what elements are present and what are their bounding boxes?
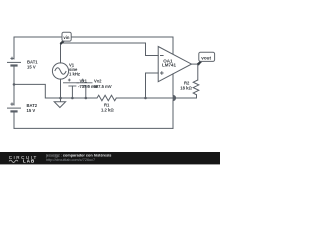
svg-text:15 V: 15 V — [27, 108, 36, 113]
wire: V1 top lead — [60, 43, 62, 63]
wire: +input stub — [146, 73, 159, 98]
resistor R1 — [97, 95, 116, 101]
svg-text:BAT2: BAT2 — [27, 103, 38, 108]
node: battery midpoint junction — [13, 83, 16, 86]
wire: probe Vx2 stem — [85, 86, 87, 98]
svg-text:697.5 mV: 697.5 mV — [94, 84, 112, 89]
probe Vx2 — [77, 79, 93, 86]
wire: BAT2 bottom to bottom rail — [13, 112, 15, 128]
svg-text:1 kHz: 1 kHz — [69, 72, 80, 77]
node: probe Vx1 junction — [71, 97, 74, 100]
node: probe Vx2 junction — [85, 97, 88, 100]
svg-text:vin: vin — [63, 35, 69, 40]
wire hop: V- wire hops over feedback wire — [173, 95, 176, 100]
wire: -15V bottom rail — [14, 127, 173, 129]
wire: R2 top lead — [197, 64, 199, 80]
wire: ground node to R1 — [61, 97, 98, 99]
probe Vx1 — [63, 79, 79, 86]
svg-text:LAB: LAB — [23, 159, 35, 164]
wire: R1 right to +input junction across to R2 bottom — [116, 97, 196, 99]
wire: BAT1 bottom to BAT2 top — [13, 66, 15, 105]
svg-text:R1: R1 — [104, 102, 110, 107]
battery BAT2 — [7, 103, 21, 112]
op-amp U1 (OA1 LM741) — [158, 37, 191, 82]
resistor R2 — [193, 80, 199, 95]
voltage source V1 — [52, 63, 68, 79]
wire: R2 bottom lead — [196, 95, 198, 98]
node: +input feedback junction — [144, 97, 147, 100]
svg-text:18 kΩ: 18 kΩ — [180, 85, 192, 90]
svg-text:jesusjgz : comparador con hist: jesusjgz : comparador con histéresis — [45, 153, 111, 157]
svg-text:R2: R2 — [184, 80, 190, 85]
wire: ground jog from battery midpoint — [14, 84, 61, 98]
svg-text:15 V: 15 V — [27, 65, 36, 70]
svg-text:vout: vout — [201, 56, 211, 61]
net flag vin — [60, 32, 71, 44]
node: output junction — [197, 63, 200, 66]
ground — [54, 98, 65, 108]
svg-text:BAT1: BAT1 — [27, 60, 38, 65]
node A: ground/V1 junction — [59, 97, 62, 100]
svg-text:LM741: LM741 — [162, 63, 177, 68]
wire: vin net V1 top to inverting input — [61, 43, 159, 56]
wire: left rail vertical BAT1 top lead — [13, 37, 15, 59]
wire: probe Vx1 stem — [71, 86, 73, 98]
wire: V1 bottom lead to ground node — [60, 79, 62, 98]
footer bar — [0, 152, 220, 164]
svg-text:Vx2: Vx2 — [94, 79, 102, 84]
wire: op-amp V- stub down to bottom rail — [172, 74, 174, 95]
net flag vout — [198, 52, 215, 64]
battery BAT1 — [7, 57, 21, 66]
wire: op-amp output to node — [192, 63, 199, 65]
svg-text:http://circuitlab.com/c/726uc7: http://circuitlab.com/c/726uc7 — [46, 158, 95, 162]
svg-text:1.2 kΩ: 1.2 kΩ — [101, 107, 114, 112]
wire: +15V top rail from BAT1+ to op-amp V+ — [14, 36, 173, 38]
